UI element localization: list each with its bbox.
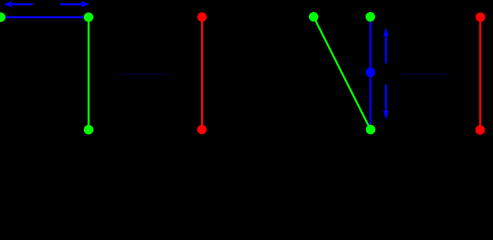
node: blue dot group3 middle bbox=[366, 68, 376, 78]
node: green dot group3 upper-left bbox=[309, 12, 319, 22]
node: green dot group3 top bbox=[366, 12, 376, 22]
arrow: blue up-pointing motion arrow (group 3) bbox=[383, 27, 388, 63]
node: green dot group3 bottom bbox=[366, 125, 376, 135]
wire: red vertical trace group 4 bbox=[479, 17, 481, 130]
wire: green vertical trace of pair 1 right dot bbox=[88, 17, 90, 130]
wire: faint navy horizontal reference line (left) bbox=[117, 73, 169, 75]
node: red dot group2 top bbox=[197, 12, 207, 22]
wire: red vertical trace group 2 bbox=[201, 17, 203, 130]
arrow: blue right-pointing motion arrow (top) bbox=[60, 1, 89, 7]
arrow: blue down-pointing motion arrow (group 3) bbox=[383, 85, 388, 120]
node: red dot group4 top bbox=[476, 12, 486, 22]
wire: blue horizontal link between pair 1 dots bbox=[1, 16, 89, 18]
arrow: blue left-pointing motion arrow (top left) bbox=[4, 1, 33, 7]
node: green dot pair1 right top bbox=[84, 12, 94, 22]
node: red dot group2 bottom bbox=[197, 125, 207, 135]
node: green dot pair1 bottom bbox=[84, 125, 94, 135]
node: green dot pair1 left (clipped at image edge) bbox=[0, 12, 6, 22]
node: red dot group4 bottom bbox=[475, 125, 485, 135]
wire: blue vertical trace group 3 bbox=[369, 17, 371, 130]
wire: green diagonal trace group 3 bbox=[314, 17, 371, 130]
wire: faint navy horizontal reference line (right) bbox=[399, 73, 451, 75]
